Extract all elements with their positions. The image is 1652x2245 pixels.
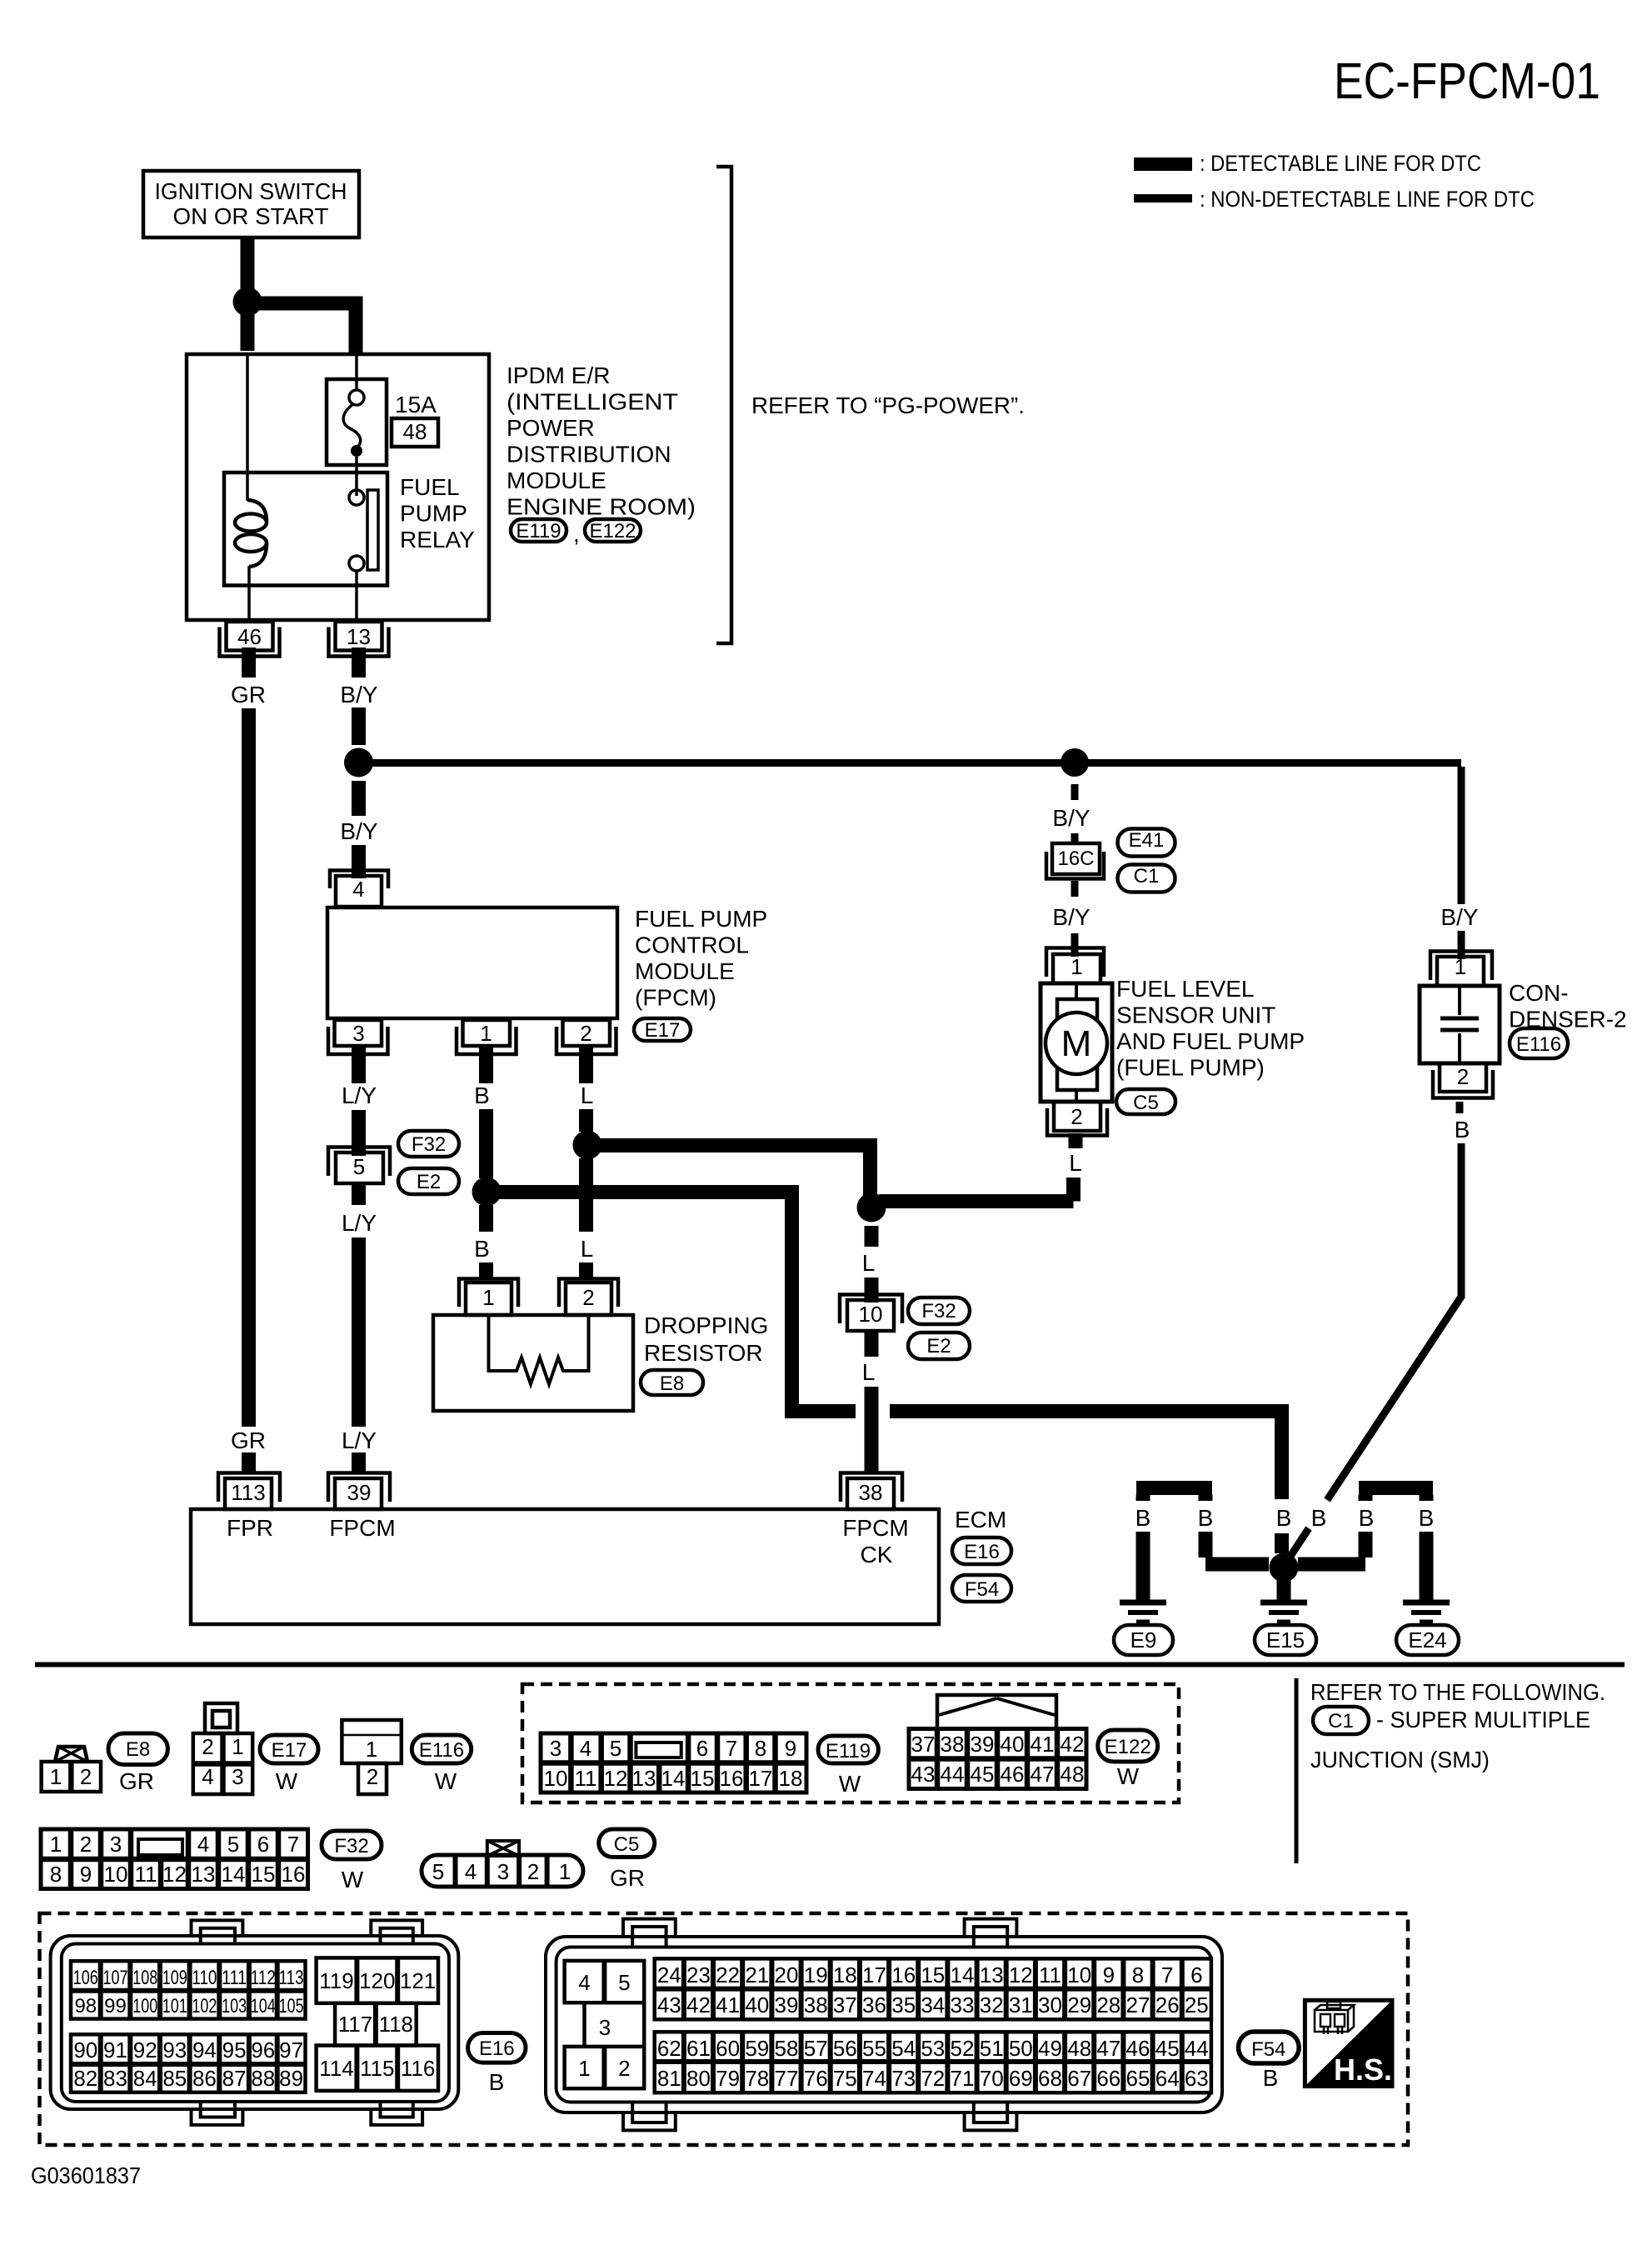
svg-text:73: 73: [891, 2066, 916, 2091]
svg-text:39: 39: [775, 1992, 799, 2017]
svg-text:B: B: [1311, 1505, 1327, 1531]
svg-text:90: 90: [73, 2037, 97, 2062]
svg-text:7: 7: [1161, 1962, 1173, 1987]
svg-text:40: 40: [745, 1992, 769, 2017]
svg-text:25: 25: [1185, 1992, 1209, 2017]
svg-text:F54: F54: [1251, 2038, 1285, 2061]
svg-text:E2: E2: [417, 1171, 441, 1193]
svg-text:15: 15: [252, 1862, 276, 1887]
svg-text:40: 40: [1001, 1732, 1025, 1757]
svg-text:E15: E15: [1266, 1627, 1305, 1652]
svg-text:C1: C1: [1134, 865, 1160, 887]
svg-text:B/Y: B/Y: [1440, 904, 1478, 930]
svg-text:E16: E16: [964, 1541, 1000, 1563]
svg-text:16: 16: [891, 1962, 916, 1987]
svg-text:4: 4: [580, 1736, 591, 1761]
svg-text:44: 44: [1185, 2036, 1209, 2061]
svg-text:34: 34: [921, 1992, 945, 2017]
svg-text:PUMP: PUMP: [400, 501, 467, 527]
svg-text:39: 39: [347, 1480, 372, 1505]
svg-text:68: 68: [1038, 2066, 1062, 2091]
svg-text:4: 4: [465, 1859, 477, 1884]
svg-text:22: 22: [716, 1962, 740, 1987]
svg-text:(INTELLIGENT: (INTELLIGENT: [507, 389, 678, 415]
svg-text:L/Y: L/Y: [342, 1427, 377, 1453]
svg-text:109: 109: [162, 1967, 187, 1989]
svg-text:GR: GR: [610, 1865, 645, 1891]
svg-text:B: B: [1419, 1505, 1435, 1531]
svg-text:63: 63: [1185, 2066, 1209, 2091]
svg-text:72: 72: [921, 2066, 945, 2091]
svg-text:W: W: [276, 1768, 298, 1794]
svg-text:31: 31: [1009, 1992, 1033, 2017]
svg-text:CON-: CON-: [1509, 980, 1569, 1006]
svg-text:E8: E8: [660, 1372, 684, 1395]
svg-text:55: 55: [862, 2036, 886, 2061]
svg-text:18: 18: [833, 1962, 857, 1987]
svg-text:REFER TO “PG-POWER”.: REFER TO “PG-POWER”.: [751, 392, 1025, 418]
svg-text:38: 38: [804, 1992, 828, 2017]
svg-text:15A: 15A: [395, 392, 437, 417]
svg-text:E17: E17: [645, 1019, 681, 1042]
svg-text:2: 2: [527, 1859, 539, 1884]
svg-text:11: 11: [575, 1766, 597, 1791]
svg-text:: NON-DETECTABLE LINE FOR DTC: : NON-DETECTABLE LINE FOR DTC: [1200, 187, 1535, 212]
svg-text:41: 41: [716, 1992, 740, 2017]
svg-text:8: 8: [755, 1736, 766, 1761]
svg-text:1: 1: [366, 1737, 377, 1762]
svg-text:F32: F32: [334, 1835, 368, 1857]
svg-text:101: 101: [162, 1995, 187, 2017]
svg-text:B/Y: B/Y: [1052, 904, 1090, 930]
svg-text:DROPPING: DROPPING: [644, 1312, 768, 1338]
svg-text:E41: E41: [1129, 829, 1165, 852]
svg-text:7: 7: [287, 1832, 299, 1857]
svg-text:FUEL LEVEL: FUEL LEVEL: [1116, 976, 1254, 1002]
svg-text:SENSOR UNIT: SENSOR UNIT: [1116, 1002, 1275, 1028]
svg-text:76: 76: [804, 2066, 828, 2091]
svg-text:CK: CK: [861, 1542, 893, 1567]
svg-text:20: 20: [775, 1962, 799, 1987]
svg-text:114: 114: [319, 2056, 353, 2081]
svg-text:B: B: [1276, 1505, 1292, 1531]
svg-text:F32: F32: [412, 1133, 446, 1156]
svg-text:17: 17: [749, 1766, 773, 1791]
svg-text:112: 112: [251, 1967, 276, 1989]
svg-text:24: 24: [657, 1962, 681, 1987]
svg-text:GR: GR: [231, 682, 266, 707]
svg-text:JUNCTION (SMJ): JUNCTION (SMJ): [1310, 1747, 1490, 1772]
svg-text:13: 13: [980, 1962, 1004, 1987]
svg-text:5: 5: [618, 1970, 630, 1995]
svg-text:49: 49: [1038, 2036, 1062, 2061]
svg-text:C5: C5: [1133, 1092, 1159, 1114]
svg-text:39: 39: [971, 1732, 995, 1757]
svg-text:45: 45: [971, 1762, 995, 1787]
svg-text:E119: E119: [826, 1740, 871, 1762]
svg-text:82: 82: [73, 2066, 97, 2091]
svg-text:E122: E122: [589, 520, 636, 542]
svg-text:B/Y: B/Y: [340, 682, 377, 707]
svg-text:1: 1: [482, 1285, 494, 1310]
svg-text:53: 53: [921, 2036, 945, 2061]
svg-text:89: 89: [279, 2066, 303, 2091]
svg-text:FPCM: FPCM: [842, 1515, 908, 1541]
svg-text:13: 13: [347, 624, 371, 649]
svg-text:DISTRIBUTION: DISTRIBUTION: [507, 442, 671, 467]
svg-text:69: 69: [1009, 2066, 1033, 2091]
svg-text:4: 4: [578, 1970, 590, 1995]
svg-text:77: 77: [775, 2066, 799, 2091]
svg-text:28: 28: [1096, 1992, 1120, 2017]
svg-text:84: 84: [133, 2066, 157, 2091]
svg-text:104: 104: [251, 1995, 276, 2017]
svg-text:2: 2: [1071, 1104, 1082, 1129]
svg-text:1: 1: [232, 1734, 243, 1759]
svg-text:ECM: ECM: [955, 1507, 1006, 1532]
svg-text:2: 2: [582, 1285, 594, 1310]
svg-text:85: 85: [162, 2066, 187, 2091]
svg-text:23: 23: [686, 1962, 711, 1987]
svg-text:35: 35: [891, 1992, 916, 2017]
svg-text:10: 10: [544, 1766, 568, 1791]
svg-text:GR: GR: [231, 1427, 266, 1453]
svg-text:1: 1: [1455, 954, 1466, 979]
svg-text:9: 9: [785, 1736, 796, 1761]
svg-text:47: 47: [1096, 2036, 1120, 2061]
svg-text:5: 5: [227, 1832, 239, 1857]
svg-text:38: 38: [941, 1732, 965, 1757]
svg-text:36: 36: [862, 1992, 886, 2017]
svg-text:5: 5: [353, 1154, 365, 1179]
svg-text:103: 103: [222, 1995, 247, 2017]
svg-text:13: 13: [632, 1766, 656, 1791]
svg-text:56: 56: [833, 2036, 857, 2061]
svg-text:L/Y: L/Y: [342, 1210, 377, 1236]
svg-text:13: 13: [192, 1862, 216, 1887]
svg-text:B/Y: B/Y: [1052, 805, 1090, 831]
svg-text:67: 67: [1067, 2066, 1091, 2091]
svg-text:H.S.: H.S.: [1334, 2052, 1392, 2087]
svg-text:IGNITION SWITCH: IGNITION SWITCH: [155, 178, 347, 204]
svg-text:87: 87: [222, 2066, 247, 2091]
svg-text:12: 12: [162, 1862, 187, 1887]
svg-text:110: 110: [192, 1967, 217, 1989]
svg-text:1: 1: [50, 1832, 62, 1857]
svg-text:GR: GR: [119, 1768, 154, 1794]
svg-text:92: 92: [133, 2037, 157, 2062]
svg-text:48: 48: [1067, 2036, 1091, 2061]
svg-text:REFER TO THE FOLLOWING.: REFER TO THE FOLLOWING.: [1310, 1679, 1605, 1705]
svg-text:ON OR START: ON OR START: [173, 203, 329, 229]
svg-text:19: 19: [804, 1962, 828, 1987]
svg-text:107: 107: [103, 1967, 128, 1989]
svg-text:64: 64: [1155, 2066, 1180, 2091]
svg-text:17: 17: [862, 1962, 886, 1987]
svg-text:G03601837: G03601837: [31, 2162, 141, 2188]
svg-text:10: 10: [1067, 1962, 1091, 1987]
svg-text:FPR: FPR: [227, 1515, 273, 1541]
svg-text:4: 4: [197, 1832, 209, 1857]
svg-text:: DETECTABLE LINE FOR DTC: : DETECTABLE LINE FOR DTC: [1200, 151, 1481, 176]
svg-text:B: B: [1455, 1117, 1470, 1142]
svg-text:88: 88: [251, 2066, 275, 2091]
svg-text:65: 65: [1126, 2066, 1150, 2091]
svg-text:16C: 16C: [1057, 847, 1094, 870]
svg-text:L: L: [862, 1359, 876, 1385]
svg-text:121: 121: [400, 1968, 436, 1993]
svg-text:37: 37: [911, 1732, 936, 1757]
svg-text:B: B: [1359, 1505, 1375, 1531]
svg-text:FUEL: FUEL: [400, 474, 460, 500]
svg-text:C1: C1: [1328, 1710, 1354, 1732]
svg-text:IPDM E/R: IPDM E/R: [507, 362, 610, 388]
svg-text:CONTROL: CONTROL: [635, 932, 749, 958]
svg-text:6: 6: [257, 1832, 269, 1857]
svg-text:POWER: POWER: [507, 415, 595, 441]
svg-text:3: 3: [232, 1764, 243, 1789]
svg-text:AND FUEL PUMP: AND FUEL PUMP: [1116, 1028, 1305, 1054]
svg-text:EC-FPCM-01: EC-FPCM-01: [1334, 52, 1600, 109]
svg-text:2: 2: [618, 2056, 630, 2081]
svg-text:11: 11: [135, 1862, 157, 1887]
svg-text:L: L: [862, 1250, 876, 1276]
svg-text:2: 2: [1457, 1064, 1469, 1089]
svg-text:79: 79: [716, 2066, 740, 2091]
svg-text:1: 1: [480, 1021, 492, 1046]
svg-text:97: 97: [279, 2037, 303, 2062]
svg-text:8: 8: [1132, 1962, 1144, 1987]
svg-text:108: 108: [132, 1967, 157, 1989]
svg-text:2: 2: [367, 1764, 378, 1789]
svg-text:1: 1: [559, 1859, 571, 1884]
svg-text:F54: F54: [965, 1578, 999, 1601]
svg-text:15: 15: [921, 1962, 945, 1987]
svg-text:10: 10: [859, 1302, 883, 1327]
svg-text:8: 8: [50, 1862, 62, 1887]
svg-text:4: 4: [352, 877, 364, 902]
svg-text:16: 16: [282, 1862, 306, 1887]
svg-text:100: 100: [132, 1995, 157, 2017]
svg-text:E116: E116: [1516, 1033, 1561, 1056]
svg-text:118: 118: [379, 2012, 413, 2037]
svg-text:91: 91: [103, 2037, 127, 2062]
svg-text:42: 42: [1061, 1732, 1085, 1757]
svg-text:26: 26: [1155, 1992, 1180, 2017]
svg-text:42: 42: [686, 1992, 711, 2017]
svg-text:95: 95: [222, 2037, 247, 2062]
svg-text:DENSER-2: DENSER-2: [1509, 1007, 1627, 1032]
svg-text:6: 6: [1190, 1962, 1202, 1987]
svg-text:43: 43: [657, 1992, 681, 2017]
svg-text:102: 102: [192, 1995, 217, 2017]
svg-text:70: 70: [980, 2066, 1004, 2091]
svg-text:120: 120: [359, 1968, 395, 1993]
svg-text:117: 117: [338, 2012, 372, 2037]
svg-text:4: 4: [202, 1764, 213, 1789]
svg-text:B: B: [474, 1082, 490, 1108]
svg-text:E116: E116: [419, 1739, 464, 1762]
svg-text:B: B: [1263, 2065, 1279, 2091]
svg-text:,: ,: [573, 521, 580, 547]
svg-text:MODULE: MODULE: [635, 958, 735, 984]
svg-text:E9: E9: [1130, 1627, 1157, 1652]
svg-text:L: L: [581, 1236, 594, 1262]
svg-text:98: 98: [74, 1995, 97, 2017]
svg-text:7: 7: [726, 1736, 737, 1761]
svg-text:41: 41: [1031, 1732, 1055, 1757]
svg-text:81: 81: [657, 2066, 681, 2091]
svg-text:ENGINE ROOM): ENGINE ROOM): [507, 494, 696, 520]
svg-text:46: 46: [1001, 1762, 1025, 1787]
svg-text:106: 106: [73, 1967, 98, 1989]
svg-text:FPCM: FPCM: [329, 1515, 395, 1541]
svg-text:B: B: [1135, 1505, 1151, 1531]
svg-text:27: 27: [1126, 1992, 1150, 2017]
svg-text:54: 54: [891, 2036, 916, 2061]
svg-text:60: 60: [716, 2036, 740, 2061]
svg-text:1: 1: [578, 2056, 590, 2081]
svg-text:45: 45: [1155, 2036, 1180, 2061]
svg-text:111: 111: [222, 1967, 247, 1989]
svg-text:B: B: [489, 2069, 505, 2095]
svg-text:116: 116: [401, 2056, 435, 2081]
svg-text:9: 9: [1103, 1962, 1115, 1987]
svg-text:RESISTOR: RESISTOR: [644, 1340, 763, 1366]
svg-text:62: 62: [657, 2036, 681, 2061]
svg-text:37: 37: [833, 1992, 857, 2017]
svg-text:12: 12: [604, 1766, 628, 1791]
svg-text:46: 46: [237, 624, 262, 649]
svg-text:80: 80: [686, 2066, 711, 2091]
svg-text:3: 3: [497, 1859, 509, 1884]
svg-text:14: 14: [222, 1862, 246, 1887]
svg-text:51: 51: [980, 2036, 1004, 2061]
svg-text:18: 18: [779, 1766, 803, 1791]
svg-text:21: 21: [745, 1962, 769, 1987]
svg-text:3: 3: [599, 2015, 611, 2040]
svg-text:113: 113: [279, 1967, 304, 1989]
svg-text:75: 75: [833, 2066, 857, 2091]
svg-text:15: 15: [691, 1766, 715, 1791]
svg-text:99: 99: [104, 1995, 127, 2017]
svg-text:L: L: [581, 1082, 594, 1108]
svg-text:58: 58: [775, 2036, 799, 2061]
svg-text:48: 48: [403, 419, 427, 444]
svg-text:119: 119: [319, 1968, 353, 1993]
svg-text:46: 46: [1126, 2036, 1150, 2061]
svg-text:94: 94: [192, 2037, 217, 2062]
svg-text:2: 2: [80, 1832, 92, 1857]
svg-text:B: B: [1198, 1505, 1214, 1531]
svg-text:83: 83: [103, 2066, 127, 2091]
svg-text:11: 11: [1039, 1962, 1061, 1987]
svg-text:50: 50: [1009, 2036, 1033, 2061]
svg-text:3: 3: [550, 1736, 561, 1761]
svg-text:E8: E8: [126, 1738, 150, 1761]
svg-text:5: 5: [432, 1859, 444, 1884]
svg-text:(FPCM): (FPCM): [635, 985, 716, 1011]
svg-text:E17: E17: [272, 1739, 307, 1762]
svg-text:74: 74: [862, 2066, 886, 2091]
svg-text:E16: E16: [479, 2037, 515, 2060]
svg-text:47: 47: [1031, 1762, 1055, 1787]
svg-text:44: 44: [941, 1762, 965, 1787]
svg-text:FUEL PUMP: FUEL PUMP: [635, 906, 767, 932]
svg-text:M: M: [1061, 1023, 1092, 1064]
svg-text:L/Y: L/Y: [342, 1082, 377, 1108]
svg-text:W: W: [839, 1771, 861, 1797]
svg-text:14: 14: [661, 1766, 686, 1791]
svg-text:RELAY: RELAY: [400, 527, 475, 552]
svg-text:16: 16: [720, 1766, 744, 1791]
svg-text:L: L: [1069, 1150, 1082, 1176]
svg-text:2: 2: [80, 1764, 92, 1789]
svg-text:105: 105: [279, 1995, 304, 2017]
svg-text:66: 66: [1096, 2066, 1120, 2091]
svg-text:57: 57: [804, 2036, 828, 2061]
svg-text:5: 5: [610, 1736, 621, 1761]
svg-text:12: 12: [1009, 1962, 1033, 1987]
svg-text:113: 113: [231, 1480, 265, 1505]
svg-text:52: 52: [951, 2036, 975, 2061]
svg-text:- SUPER MULITIPLE: - SUPER MULITIPLE: [1376, 1707, 1590, 1732]
svg-text:33: 33: [951, 1992, 975, 2017]
svg-text:29: 29: [1067, 1992, 1091, 2017]
svg-text:6: 6: [696, 1736, 708, 1761]
svg-text:W: W: [1117, 1763, 1140, 1789]
svg-text:B: B: [474, 1236, 490, 1262]
svg-text:32: 32: [980, 1992, 1004, 2017]
svg-text:2: 2: [202, 1734, 213, 1759]
svg-text:W: W: [435, 1768, 457, 1794]
svg-text:61: 61: [686, 2036, 711, 2061]
svg-text:3: 3: [352, 1021, 364, 1046]
svg-text:W: W: [342, 1867, 364, 1892]
svg-text:3: 3: [110, 1832, 122, 1857]
svg-text:71: 71: [951, 2066, 975, 2091]
svg-text:C5: C5: [614, 1833, 640, 1856]
svg-text:E119: E119: [516, 520, 561, 542]
svg-text:38: 38: [859, 1480, 883, 1505]
svg-text:2: 2: [580, 1021, 591, 1046]
svg-text:86: 86: [192, 2066, 217, 2091]
svg-text:78: 78: [745, 2066, 769, 2091]
svg-text:1: 1: [50, 1764, 62, 1789]
svg-text:115: 115: [360, 2056, 394, 2081]
svg-text:48: 48: [1061, 1762, 1085, 1787]
svg-text:E2: E2: [926, 1335, 951, 1357]
svg-text:30: 30: [1038, 1992, 1062, 2017]
svg-text:E122: E122: [1105, 1736, 1151, 1758]
svg-text:10: 10: [104, 1862, 128, 1887]
svg-text:B/Y: B/Y: [340, 818, 377, 844]
svg-text:1: 1: [1071, 954, 1082, 979]
svg-text:14: 14: [951, 1962, 975, 1987]
svg-text:93: 93: [162, 2037, 187, 2062]
svg-text:E24: E24: [1408, 1627, 1446, 1652]
svg-text:(FUEL PUMP): (FUEL PUMP): [1116, 1055, 1265, 1081]
svg-text:43: 43: [911, 1762, 936, 1787]
svg-text:F32: F32: [921, 1300, 956, 1322]
svg-text:59: 59: [745, 2036, 769, 2061]
svg-text:9: 9: [80, 1862, 92, 1887]
svg-text:MODULE: MODULE: [507, 467, 606, 493]
svg-text:96: 96: [251, 2037, 275, 2062]
